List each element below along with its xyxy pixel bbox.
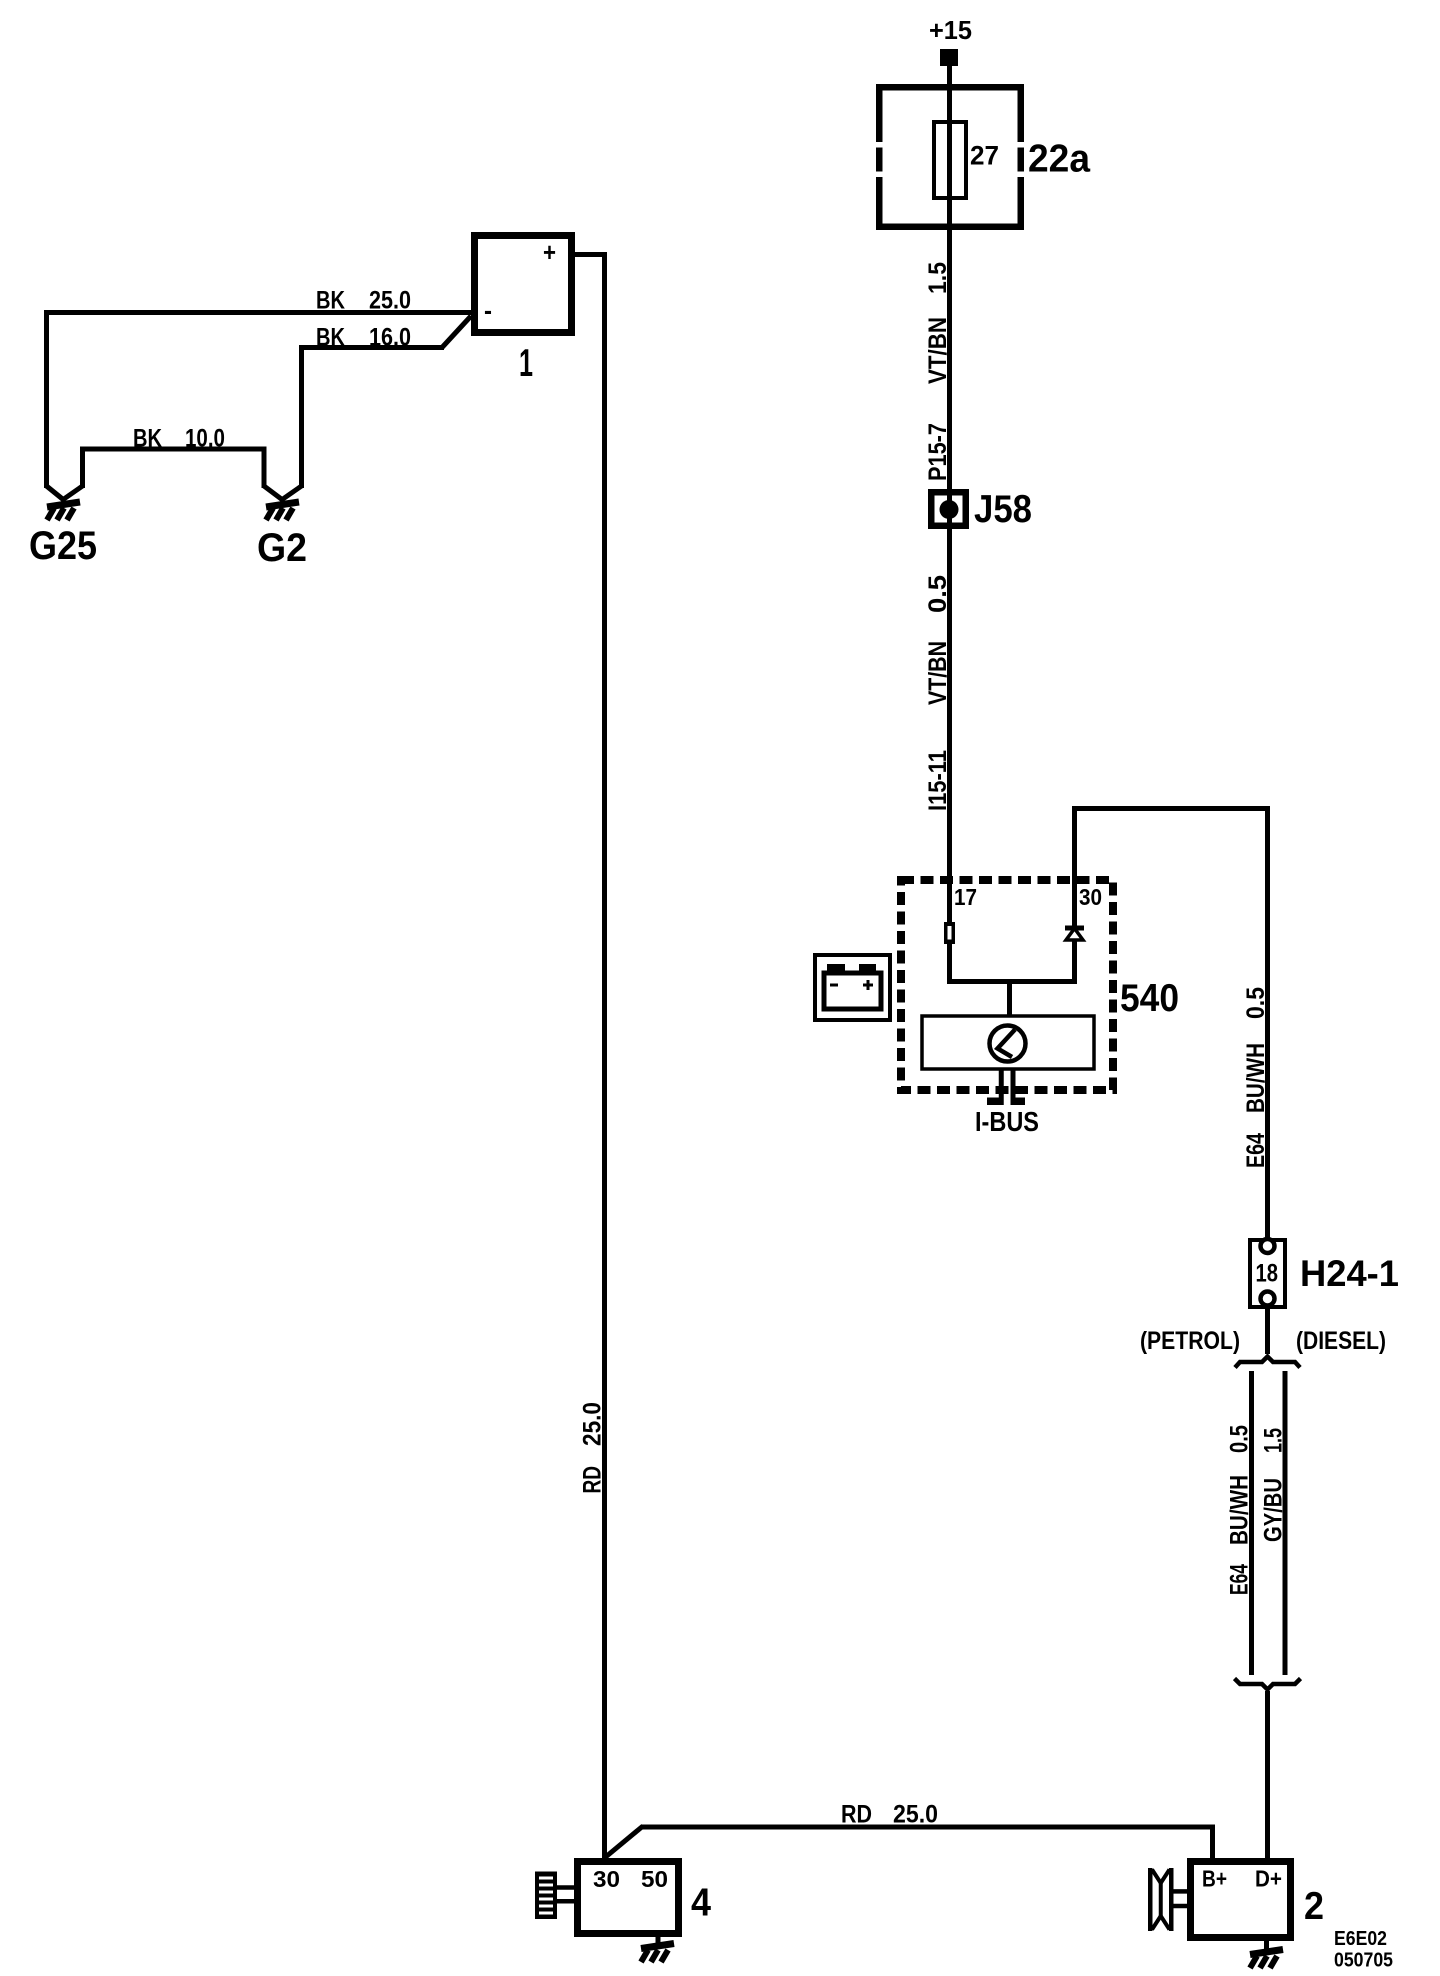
battery icon next to 540: [815, 955, 890, 1020]
generator pulley icon: [1148, 1868, 1187, 1931]
svg-text:540: 540: [1120, 977, 1179, 1020]
svg-text:16.0: 16.0: [369, 324, 411, 352]
label (PETROL): [1140, 1327, 1240, 1355]
svg-text:27: 27: [970, 141, 999, 171]
svg-text:2: 2: [1304, 1885, 1324, 1928]
svg-text:50: 50: [641, 1866, 668, 1892]
svg-text:RD: RD: [579, 1466, 607, 1494]
svg-text:VT/BN: VT/BN: [924, 317, 952, 384]
connector H24-1: [1250, 1239, 1399, 1307]
pin 17: [944, 884, 977, 944]
fuse 27: [934, 122, 999, 198]
wire brace to D+ of generator: [1265, 1691, 1270, 1858]
svg-text:+15: +15: [929, 15, 972, 45]
svg-text:1.5: 1.5: [1260, 1428, 1288, 1453]
svg-text:I15-11: I15-11: [924, 750, 952, 811]
drawing date 050705: [1334, 1950, 1393, 1972]
wire label E64 BU/WH 0.5 (upper): [1242, 987, 1270, 1168]
svg-text:VT/BN: VT/BN: [924, 641, 952, 705]
svg-text:+: +: [543, 237, 556, 267]
svg-text:BK: BK: [133, 425, 162, 453]
wire BK 25.0 battery - to G25: [47, 287, 472, 489]
wire H24-1 to split brace: [1265, 1309, 1270, 1354]
svg-text:(DIESEL): (DIESEL): [1296, 1327, 1386, 1355]
ground G25: [29, 486, 97, 568]
svg-text:G2: G2: [257, 526, 307, 570]
starter motor 4: [578, 1862, 712, 1934]
wire label VT/BN 0.5: [924, 575, 952, 705]
svg-text:B+: B+: [1202, 1866, 1227, 1892]
twin wire diesel GY/BU 1.5: [1260, 1371, 1288, 1675]
label (DIESEL): [1296, 1327, 1386, 1355]
starter bolt terminal icon: [535, 1872, 574, 1920]
svg-text:25.0: 25.0: [893, 1801, 938, 1829]
ground under generator 2: [1250, 1941, 1283, 1968]
battery 1: [475, 236, 572, 386]
svg-text:BK: BK: [316, 324, 345, 352]
pump unit box inside 540: [922, 1016, 1094, 1069]
svg-text:0.5: 0.5: [1242, 987, 1270, 1019]
pin label I15-11: [924, 750, 952, 811]
svg-text:0.5: 0.5: [1226, 1425, 1254, 1453]
svg-text:RD: RD: [841, 1801, 872, 1829]
wire battery + to starter (RD 25.0): [575, 255, 607, 1859]
svg-text:BU/WH: BU/WH: [1242, 1043, 1270, 1113]
wire BK 16.0 battery - to G2: [302, 316, 472, 488]
twin wire petrol E64 BU/WH 0.5: [1226, 1371, 1254, 1675]
svg-text:E64: E64: [1226, 1564, 1254, 1595]
pin label P15-7: [924, 423, 952, 481]
wire BK 10.0 G25 to G2: [83, 425, 265, 489]
connector J58: [931, 488, 1032, 531]
svg-text:0.5: 0.5: [924, 575, 952, 613]
svg-text:10.0: 10.0: [185, 425, 225, 453]
svg-text:E64: E64: [1242, 1133, 1270, 1168]
svg-text:30: 30: [1079, 884, 1102, 910]
svg-text:BK: BK: [316, 287, 345, 315]
label 22a: [1028, 138, 1090, 181]
svg-text:22a: 22a: [1028, 138, 1090, 181]
fuse holder box 22a: [875, 87, 1025, 227]
svg-text:I-BUS: I-BUS: [975, 1106, 1039, 1137]
I-BUS twisted pair: [975, 1069, 1039, 1137]
pin 30: [1079, 884, 1102, 910]
svg-text:25.0: 25.0: [579, 1402, 607, 1446]
generator 2: [1191, 1862, 1325, 1938]
drawing number E6E02: [1334, 1928, 1387, 1950]
svg-text:17: 17: [954, 884, 977, 910]
diode inside 540: [1065, 928, 1084, 982]
svg-text:18: 18: [1256, 1260, 1279, 1288]
ground under starter 4: [641, 1937, 674, 1962]
wire label VT/BN 1.5: [924, 262, 952, 384]
svg-text:25.0: 25.0: [369, 287, 411, 315]
svg-text:P15-7: P15-7: [924, 423, 952, 481]
svg-text:BU/WH: BU/WH: [1226, 1475, 1254, 1545]
svg-text:G25: G25: [29, 524, 97, 568]
svg-text:4: 4: [691, 1882, 711, 1925]
svg-text:D+: D+: [1255, 1866, 1282, 1892]
svg-text:050705: 050705: [1334, 1950, 1393, 1972]
node +15 terminal: [929, 15, 972, 66]
lower merge brace: [1235, 1679, 1301, 1690]
svg-text:1.5: 1.5: [924, 262, 952, 294]
svg-text:J58: J58: [974, 488, 1032, 531]
svg-text:1: 1: [519, 342, 533, 385]
svg-text:H24-1: H24-1: [1300, 1253, 1399, 1294]
svg-text:E6E02: E6E02: [1334, 1928, 1387, 1950]
control module 540 dashed box: [901, 880, 1179, 1090]
svg-text:(PETROL): (PETROL): [1140, 1327, 1240, 1355]
svg-text:-: -: [484, 295, 492, 325]
svg-text:30: 30: [593, 1866, 620, 1892]
wire inside 540 joining pins: [947, 944, 1077, 1016]
wire pin30 branch up and right to H24-1: [1072, 806, 1270, 1242]
svg-text:GY/BU: GY/BU: [1260, 1478, 1288, 1542]
upper split brace: [1235, 1357, 1300, 1368]
wire from +15 down through fuse box to J58 and 540 pin 17: [947, 66, 952, 922]
wire RD 25.0 starter to generator B+: [605, 1801, 1213, 1859]
ground G2: [257, 486, 307, 570]
